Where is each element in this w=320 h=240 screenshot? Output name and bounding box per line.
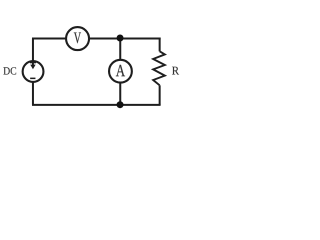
junction node bottom [117,101,124,108]
voltmeter V1 circle [66,27,89,50]
DC source internal stem [32,62,34,67]
DC source arrowhead (down) [30,65,35,70]
wire right vertical top [159,38,161,52]
label DC (D glyph) [3,67,9,74]
DC source circle [23,61,44,82]
ammeter label A [116,65,125,76]
ammeter A1 circle [109,60,132,83]
wire top rail [32,38,161,40]
voltmeter label V [74,33,81,44]
label DC (C glyph) [11,67,17,74]
junction node top [117,35,124,42]
wire ammeter branch [119,39,121,105]
label R [172,67,179,75]
resistor R zigzag [153,51,165,85]
wire left vertical [32,39,34,105]
wire right vertical bottom [159,85,161,105]
wire bottom rail [32,104,161,106]
DC source plus crossbar [30,62,36,64]
DC source minus bar [30,78,35,80]
